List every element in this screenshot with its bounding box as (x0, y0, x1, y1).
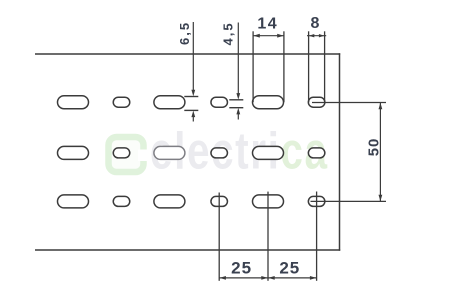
slot row3 col1 (58, 195, 89, 208)
dimension 14 extension line left (252, 31, 254, 102)
svg-text:8: 8 (310, 15, 320, 32)
dimension 8 extension line left (308, 31, 310, 102)
strip bottom edge (35, 249, 340, 251)
extension line col4 down (218, 193, 220, 281)
oval hole row1 col6 (308, 97, 325, 107)
leader line row1 right (312, 102, 386, 104)
oval hole row2 col4 (211, 148, 228, 158)
svg-text:25: 25 (231, 259, 252, 278)
oval hole row2 col6 (308, 148, 325, 158)
svg-text:14: 14 (257, 16, 278, 33)
slot row3 col5 (253, 195, 284, 208)
leader line row3 right (311, 200, 387, 202)
dimension 6,5 lower tick (184, 109, 198, 111)
dimension 14 line with arrows (253, 34, 284, 38)
slot row2 col5 (253, 146, 284, 159)
slot row1 col3 (154, 96, 185, 109)
watermark logo green square (109, 137, 151, 172)
oval hole row3 col4 (211, 196, 228, 206)
dimension 8 extension line right (324, 31, 326, 102)
dimension 4,5 lower shaft with up arrow (236, 108, 240, 120)
dimension 50 line with arrows (379, 103, 383, 202)
dimension 4,5 upper tick (229, 99, 243, 101)
strip right edge (339, 53, 341, 250)
dimension 4,5 lower tick (229, 107, 243, 109)
oval hole row1 col4 (211, 97, 228, 107)
dimension 4,5 upper shaft with down arrow (236, 23, 240, 100)
dimension 25 right line with arrows (268, 276, 317, 280)
dimension 6,5 lower shaft with up arrow (191, 111, 195, 122)
svg-text:50: 50 (366, 138, 383, 157)
dimension 8 line with arrows (307, 34, 326, 37)
slot row2 col1 (58, 146, 89, 159)
svg-text:4,5: 4,5 (221, 21, 236, 45)
slot row3 col3 (154, 195, 185, 208)
dimension 25 left line with arrows (219, 276, 268, 280)
extension line col6 down (316, 192, 318, 281)
dimension 6,5 upper tick (184, 96, 198, 98)
dimension 6,5 upper shaft with down arrow (191, 22, 195, 96)
svg-text:6,5: 6,5 (177, 21, 192, 45)
strip top edge (35, 53, 340, 55)
slot row2 col3 (greyed by watermark) (154, 146, 185, 159)
slot row1 col1 (58, 96, 89, 109)
dimension 14 extension line right (283, 31, 285, 102)
oval hole row2 col2 (113, 148, 130, 158)
svg-text:25: 25 (279, 259, 300, 278)
extension line col5 down (267, 192, 269, 281)
oval hole row1 col2 (113, 97, 130, 107)
oval hole row3 col2 (113, 196, 130, 206)
slot row1 col5 (253, 96, 284, 109)
oval hole row3 col6 (308, 196, 325, 206)
